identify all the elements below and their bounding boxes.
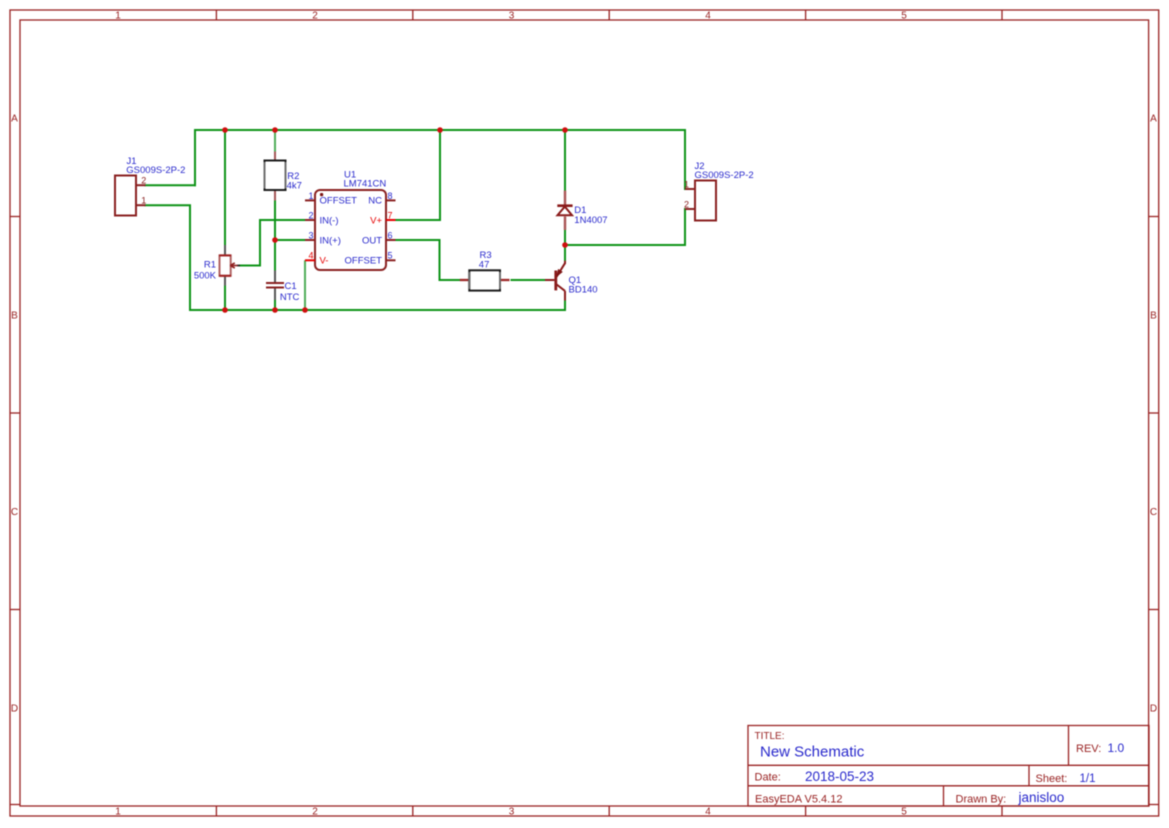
svg-text:GS009S-2P-2: GS009S-2P-2	[126, 165, 185, 176]
svg-text:GS009S-2P-2: GS009S-2P-2	[695, 170, 754, 181]
svg-text:4: 4	[705, 11, 711, 22]
svg-text:C: C	[11, 507, 18, 518]
svg-text:8: 8	[388, 191, 393, 201]
svg-text:Date:: Date:	[755, 772, 781, 784]
svg-text:A: A	[11, 114, 18, 125]
svg-text:47: 47	[479, 260, 490, 271]
svg-text:D: D	[11, 704, 18, 715]
svg-text:2018-05-23: 2018-05-23	[805, 769, 874, 784]
svg-text:D: D	[1150, 704, 1157, 715]
svg-text:2: 2	[312, 807, 318, 818]
svg-text:3: 3	[509, 807, 515, 818]
svg-text:V+: V+	[370, 216, 382, 227]
svg-text:BD140: BD140	[569, 285, 598, 296]
svg-text:C: C	[1150, 507, 1157, 518]
svg-text:2: 2	[141, 176, 146, 186]
svg-text:2: 2	[684, 200, 689, 210]
svg-text:4k7: 4k7	[287, 181, 302, 192]
svg-text:4: 4	[705, 807, 711, 818]
svg-text:REV:: REV:	[1076, 743, 1101, 755]
svg-text:500K: 500K	[194, 271, 217, 282]
svg-text:janisloo: janisloo	[1018, 790, 1065, 805]
svg-text:C1: C1	[285, 281, 297, 292]
svg-text:Drawn By:: Drawn By:	[956, 794, 1007, 806]
svg-text:3: 3	[308, 231, 313, 241]
svg-text:V-: V-	[320, 256, 329, 267]
svg-text:IN(-): IN(-)	[320, 216, 339, 227]
svg-text:OFFSET: OFFSET	[345, 256, 383, 267]
svg-text:NTC: NTC	[280, 292, 300, 303]
svg-text:4: 4	[308, 251, 313, 261]
svg-text:TITLE:: TITLE:	[755, 731, 785, 742]
svg-text:OFFSET: OFFSET	[320, 196, 358, 207]
svg-text:5: 5	[388, 251, 393, 261]
svg-text:NC: NC	[368, 196, 382, 207]
svg-text:1.0: 1.0	[1108, 741, 1125, 755]
svg-text:LM741CN: LM741CN	[344, 179, 387, 190]
svg-text:5: 5	[901, 11, 907, 22]
svg-text:1: 1	[115, 11, 121, 22]
svg-text:B: B	[1150, 311, 1157, 322]
svg-text:A: A	[1150, 114, 1157, 125]
svg-text:R1: R1	[204, 260, 216, 271]
svg-text:1: 1	[141, 196, 146, 206]
svg-text:New Schematic: New Schematic	[760, 744, 865, 761]
svg-text:IN(+): IN(+)	[320, 236, 341, 247]
svg-text:1N4007: 1N4007	[574, 215, 607, 226]
svg-text:2: 2	[308, 211, 313, 221]
svg-text:B: B	[11, 311, 18, 322]
svg-text:1: 1	[684, 180, 689, 190]
svg-text:Sheet:: Sheet:	[1036, 773, 1068, 785]
svg-text:5: 5	[901, 807, 907, 818]
svg-text:7: 7	[388, 211, 393, 221]
svg-text:1: 1	[115, 807, 121, 818]
svg-text:2: 2	[312, 11, 318, 22]
svg-text:3: 3	[509, 11, 515, 22]
svg-text:6: 6	[388, 231, 393, 241]
svg-text:EasyEDA V5.4.12: EasyEDA V5.4.12	[755, 794, 842, 806]
svg-text:OUT: OUT	[362, 236, 382, 247]
svg-text:1: 1	[308, 191, 313, 201]
svg-text:1/1: 1/1	[1080, 773, 1096, 785]
